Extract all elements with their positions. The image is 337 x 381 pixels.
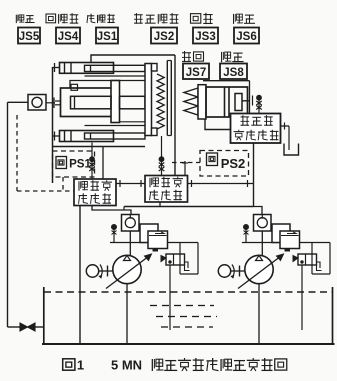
svg-text:JS7: JS7	[186, 67, 206, 79]
svg-text:PS1: PS1	[69, 159, 91, 171]
svg-text:1: 1	[77, 357, 84, 372]
svg-text:JS8: JS8	[223, 67, 244, 79]
svg-text:JS1: JS1	[97, 31, 118, 43]
svg-text:JS6: JS6	[236, 31, 256, 43]
svg-text:JS3: JS3	[195, 31, 215, 43]
svg-text:JS4: JS4	[58, 31, 79, 43]
svg-text:5 MN: 5 MN	[111, 357, 142, 372]
svg-text:JS5: JS5	[19, 31, 40, 43]
svg-text:JS2: JS2	[154, 31, 174, 43]
svg-text:PS2: PS2	[221, 156, 246, 171]
